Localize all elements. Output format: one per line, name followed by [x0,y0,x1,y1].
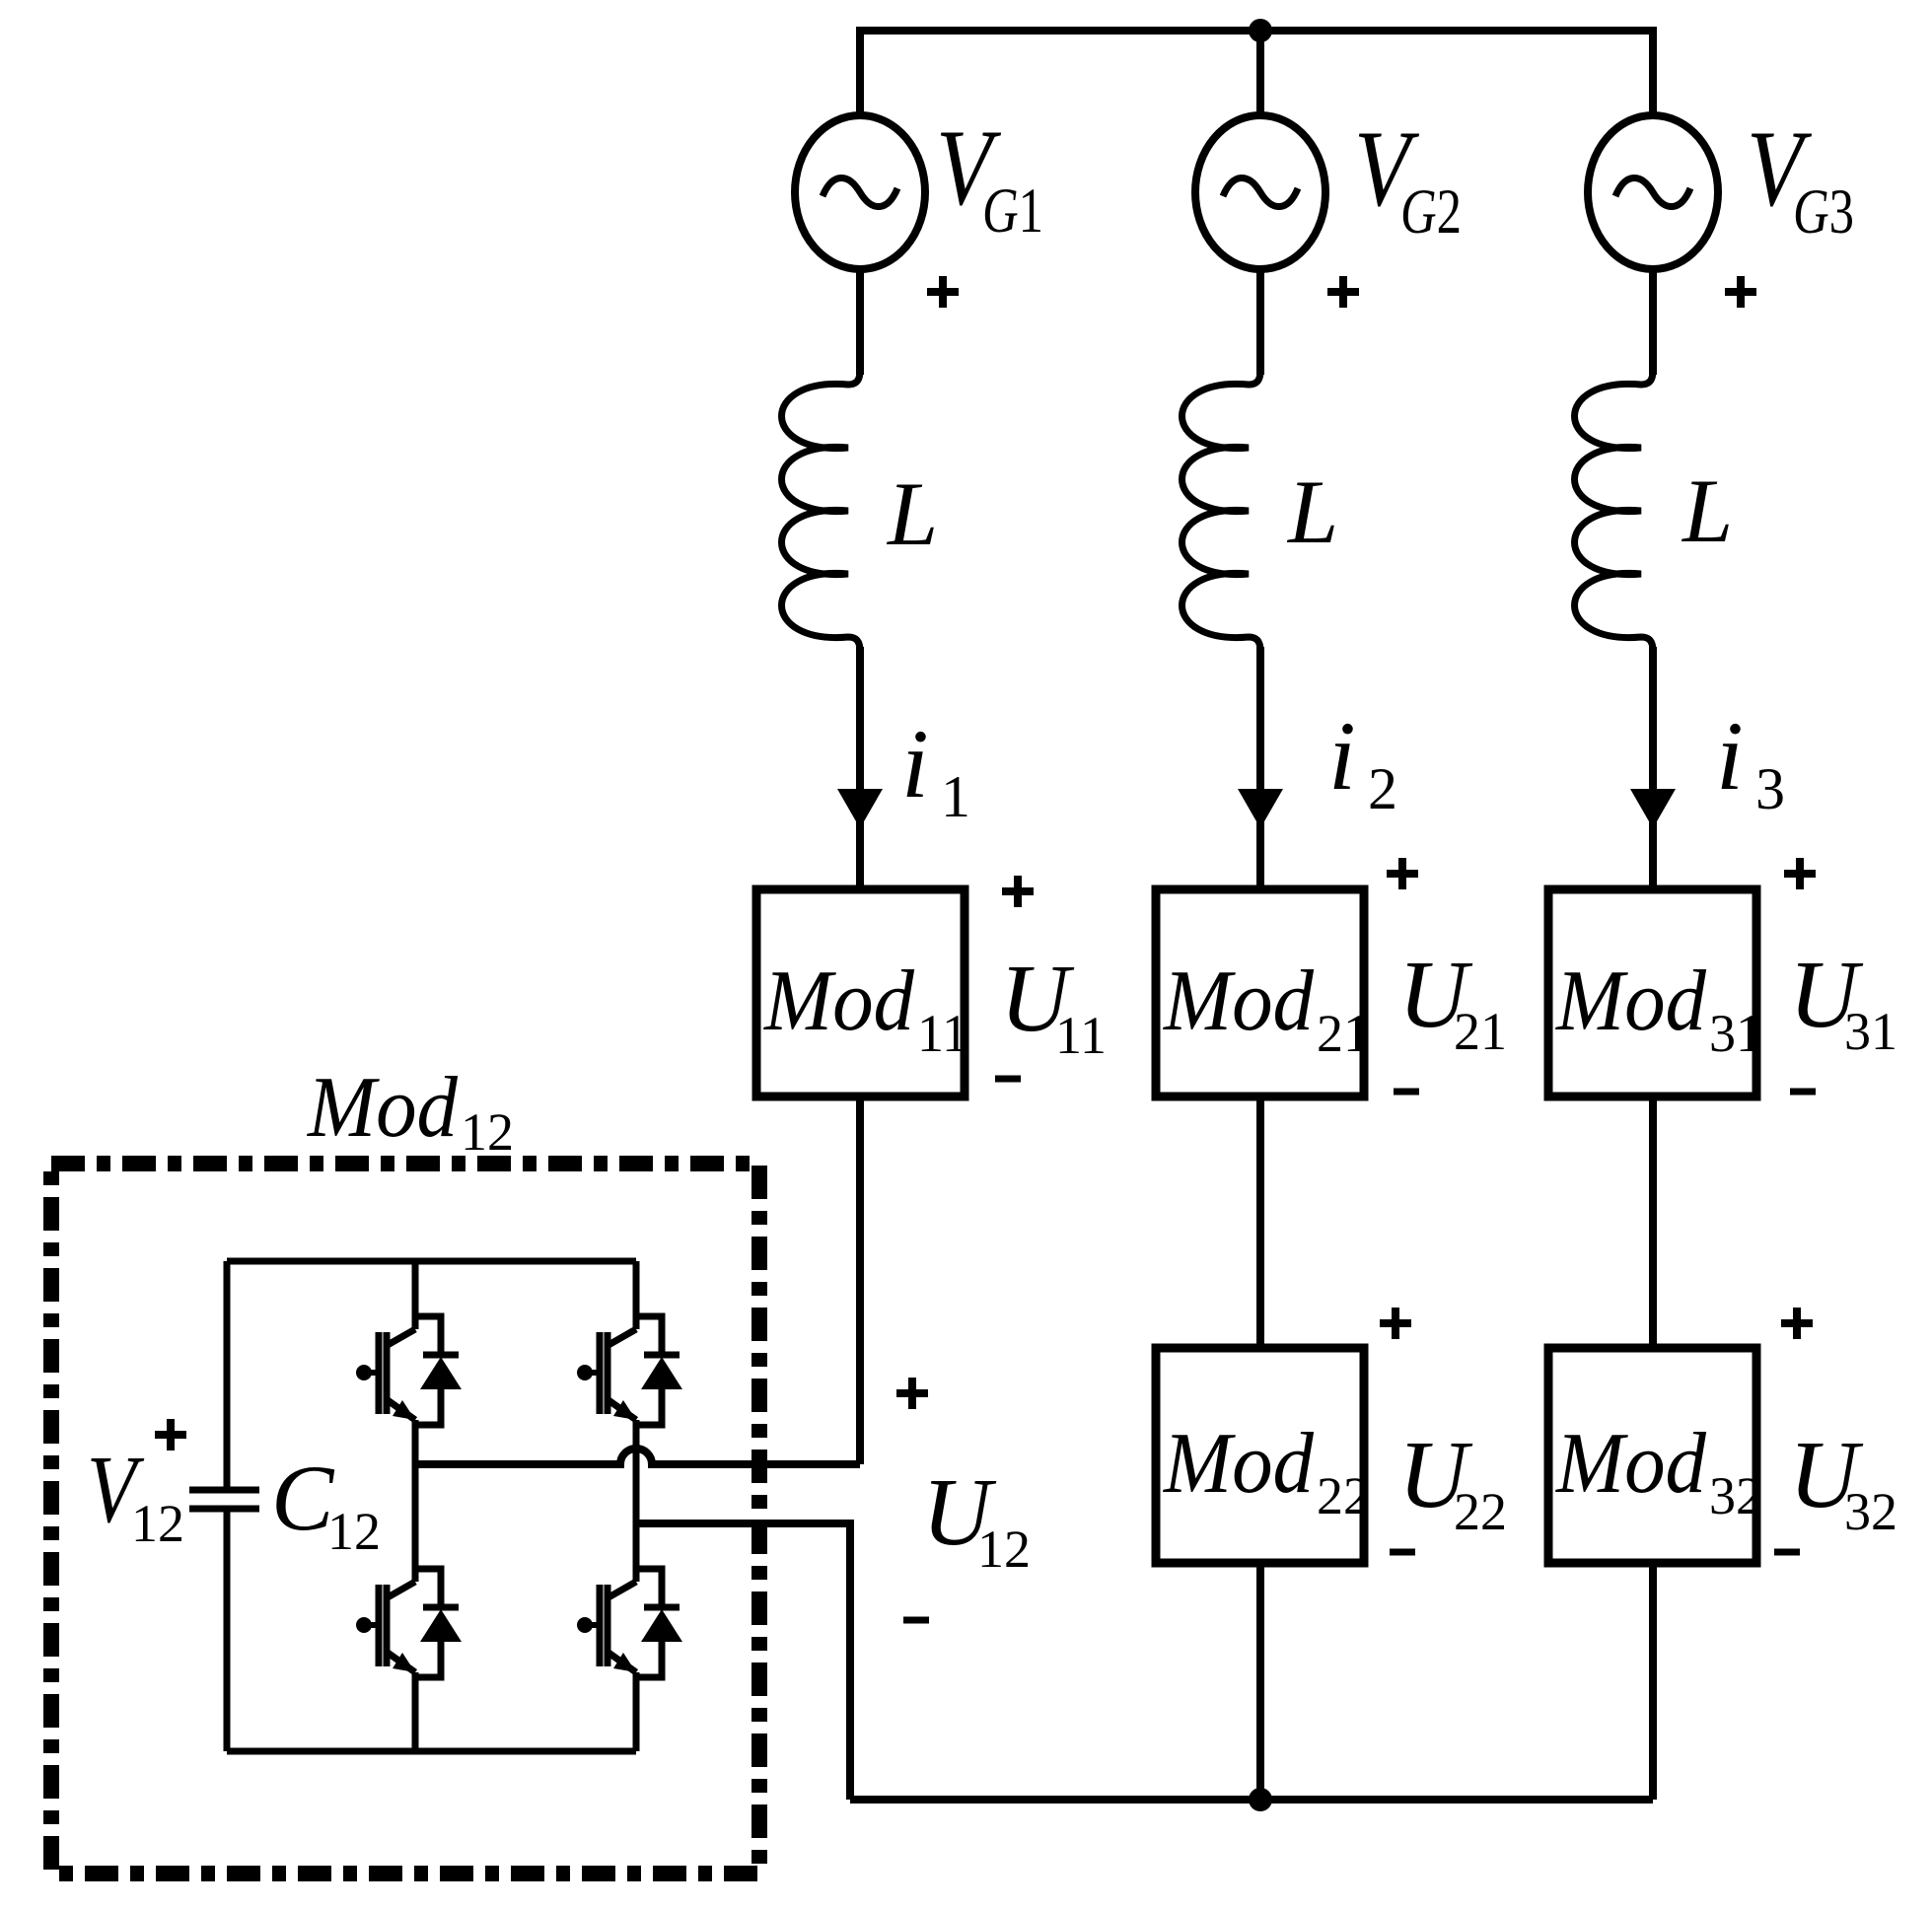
svg-text:11: 11 [1055,1006,1107,1065]
svg-text:L: L [1681,460,1733,561]
svg-text:G1: G1 [982,176,1043,247]
svg-text:21: 21 [1317,1004,1370,1063]
wire top bus [860,31,1653,115]
wire bottom bus [850,1796,1653,1804]
minus U11 [995,1076,1021,1083]
plus U31 [1784,858,1816,889]
plus U32 [1781,1308,1813,1339]
AC source VG2 [1195,115,1325,269]
svg-text:12: 12 [977,1520,1031,1579]
node bottom junction [1249,1788,1272,1811]
svg-text:32: 32 [1844,1482,1897,1541]
wire source3 to L3 [1649,269,1657,375]
node top junction [1249,19,1272,42]
transistor Q2 with diode D2 [577,1316,682,1425]
diode D2 [636,1316,662,1425]
svg-text:Mod: Mod [1162,1416,1315,1512]
svg-text:C: C [271,1446,335,1550]
arrow current i3 [1630,789,1676,828]
minus U21 [1394,1089,1419,1096]
svg-text:12: 12 [327,1502,381,1561]
svg-text:G2: G2 [1400,177,1462,248]
wire bridge bottom rail [227,1748,636,1755]
svg-text:Mod: Mod [306,1060,459,1156]
wire L3 to Mod31 [1649,647,1657,890]
svg-text:12: 12 [131,1494,184,1553]
plus VG3 [1725,276,1756,308]
svg-text:Mod: Mod [1554,1416,1707,1512]
plus V12 [155,1419,186,1450]
transistor Q2 [597,1332,604,1414]
svg-text:11: 11 [917,1004,968,1063]
diode D4 [636,1569,662,1677]
minus U32 [1774,1549,1800,1556]
wire bridge right leg [633,1261,640,1751]
wire L2 to Mod21 [1256,647,1264,890]
svg-text:3: 3 [1755,756,1785,821]
svg-text:31: 31 [1709,1004,1762,1063]
wire Mod22 to bottom bus [1256,1561,1264,1800]
module Mod11 [756,889,965,1096]
plus VG1 [927,276,959,308]
transistor Q3 with diode D3 [356,1569,462,1677]
inductor L1 [782,371,861,651]
minus U22 [1390,1549,1415,1556]
wire L1 to Mod11 [856,647,864,890]
module Mod32 [1548,1348,1756,1563]
wire Mod32 to bottom bus [1649,1561,1657,1800]
wire bridge output B lower [636,1523,850,1800]
svg-text:i: i [901,709,929,818]
plus VG2 [1327,276,1359,308]
arrow current i2 [1238,789,1283,828]
transistor Q1 [376,1332,383,1414]
boundary dash-dot box Mod12 [51,1164,759,1874]
svg-text:22: 22 [1454,1482,1507,1541]
svg-text:22: 22 [1317,1466,1370,1525]
wire capacitor rail upper [224,1261,231,1490]
wire Mod11 to bridge output A [856,1096,864,1464]
wire bridge top rail [227,1258,636,1265]
plus U11 [1002,876,1034,907]
plus U21 [1387,858,1418,889]
arrow current i1 [837,789,883,828]
wire source2 to L2 [1256,269,1264,375]
wire Mod31 to Mod32 [1649,1096,1657,1349]
inductor L3 [1575,371,1654,651]
svg-text:L: L [886,463,938,564]
svg-text:Mod: Mod [762,954,915,1049]
wire bridge left leg [412,1261,419,1751]
transistor Q4 with diode D4 [577,1569,682,1677]
svg-text:21: 21 [1454,1002,1507,1061]
plus U22 [1380,1308,1411,1339]
wire source1 to L1 [856,269,864,375]
diode D3 [415,1569,441,1677]
svg-text:L: L [1286,461,1338,562]
module Mod21 [1156,889,1364,1096]
diode D1 [415,1316,441,1425]
AC source VG3 [1588,115,1718,269]
transistor Q1 with diode D1 [356,1316,462,1425]
AC source VG1 [795,115,925,269]
wire capacitor rail lower [224,1509,231,1751]
minus U12 [903,1617,929,1624]
svg-text:G3: G3 [1793,177,1854,248]
wire bridge output A upper with hop [415,1449,860,1464]
wire phase2 top stub [1256,31,1264,115]
wire Mod21 to Mod22 [1256,1096,1264,1349]
capacitor C12 [189,1490,259,1509]
svg-text:12: 12 [461,1102,514,1162]
minus U31 [1790,1089,1816,1096]
svg-text:i: i [1328,701,1356,811]
svg-text:1: 1 [941,764,970,829]
plus U12 [896,1378,928,1409]
inductor L2 [1182,371,1261,651]
transistor Q4 [597,1585,604,1666]
svg-text:32: 32 [1709,1466,1762,1525]
svg-text:i: i [1716,701,1744,811]
svg-text:Mod: Mod [1554,954,1707,1049]
module Mod31 [1548,889,1756,1096]
svg-text:31: 31 [1844,1002,1897,1061]
svg-text:2: 2 [1368,756,1397,821]
svg-text:Mod: Mod [1162,954,1315,1049]
module Mod22 [1156,1348,1364,1563]
transistor Q3 [376,1585,383,1666]
